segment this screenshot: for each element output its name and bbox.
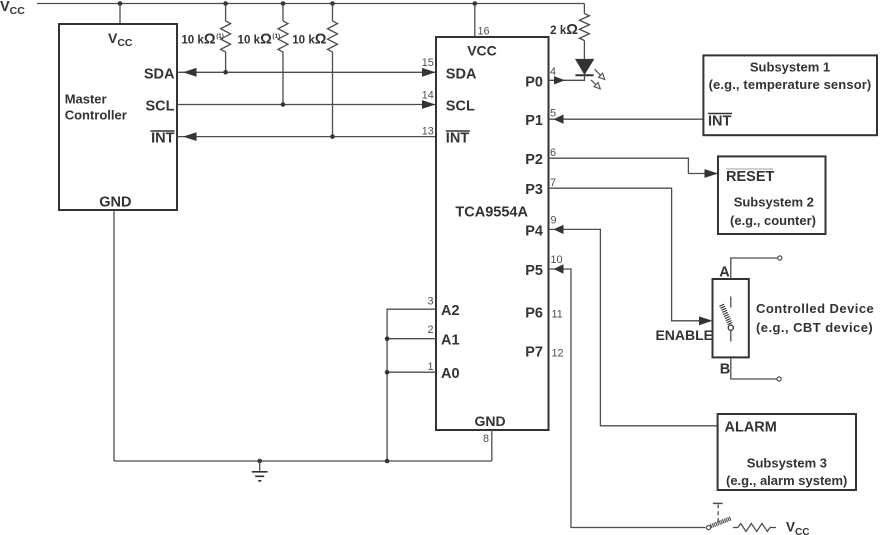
wire SDA master-TCA9554A <box>177 71 436 73</box>
Master Controller caption <box>65 91 127 122</box>
wire rail to 2k resistor <box>583 4 585 14</box>
arrowhead P4 into TCA9554A <box>554 225 564 234</box>
resistor R1 10k (SDA pull-up) <box>221 21 231 52</box>
wire master GND down <box>113 210 115 461</box>
svg-text:Subsystem 3: Subsystem 3 <box>747 455 827 470</box>
wire TCA9554A GND pin 8 <box>491 430 493 461</box>
svg-text:(e.g., alarm system): (e.g., alarm system) <box>726 473 847 488</box>
label 10 kOhm for R3 <box>292 31 327 47</box>
terminal circle B <box>777 377 781 381</box>
svg-text:GND: GND <box>474 413 505 429</box>
svg-text:VCC: VCC <box>786 519 809 535</box>
svg-text:16: 16 <box>478 26 490 38</box>
wire rail to pin 16 <box>474 4 476 38</box>
arrowhead INT at master <box>183 132 197 141</box>
svg-text:6: 6 <box>550 147 556 159</box>
svg-text:SDA: SDA <box>144 66 175 82</box>
svg-text:GND: GND <box>99 195 131 211</box>
svg-text:(e.g., counter): (e.g., counter) <box>730 213 816 228</box>
svg-text:8: 8 <box>483 433 489 445</box>
terminal circle A <box>778 256 782 260</box>
arrowhead SDA at master <box>183 68 197 77</box>
switch pivot circle <box>728 325 733 330</box>
wire P5 to push button <box>549 269 706 528</box>
Master Controller INT label (overline) <box>151 131 175 147</box>
svg-text:9: 9 <box>551 215 557 227</box>
label 2 kOhm <box>550 22 578 38</box>
junction A1 <box>385 336 390 341</box>
svg-text:A2: A2 <box>441 303 460 319</box>
svg-text:P4: P4 <box>525 224 543 240</box>
svg-text:4: 4 <box>550 66 556 78</box>
svg-text:1: 1 <box>427 361 433 373</box>
junction A0 <box>385 370 390 375</box>
label 10 kOhm (1) for R1 <box>181 31 224 47</box>
switch fixed contact top <box>730 297 732 308</box>
label 10 kOhm (1) for R2 <box>238 31 281 47</box>
svg-text:A1: A1 <box>441 333 460 349</box>
wire INT master-TCA9554A <box>177 136 436 138</box>
svg-text:2 kΩ: 2 kΩ <box>550 22 578 38</box>
resistor R3 10k (INT pull-up) <box>328 21 338 52</box>
wire A1 to address bus <box>387 338 436 340</box>
svg-text:12: 12 <box>552 348 564 360</box>
junction SDA/R1 <box>223 70 228 75</box>
wire A0 to address bus <box>387 371 436 373</box>
push button contact circle <box>706 526 710 530</box>
svg-text:14: 14 <box>422 90 434 102</box>
svg-text:SCL: SCL <box>446 99 475 115</box>
svg-text:A: A <box>719 264 730 280</box>
svg-text:10 kΩ: 10 kΩ <box>181 31 216 47</box>
svg-text:TCA9554A: TCA9554A <box>455 205 528 221</box>
node VCC (top-left label) <box>0 0 25 17</box>
arrowhead into ENABLE <box>699 316 713 325</box>
junction on rail at R2 <box>281 1 286 6</box>
wire terminal B <box>731 357 777 379</box>
junction on rail above Master Controller <box>118 1 123 6</box>
junction INT/R3 <box>330 134 335 139</box>
svg-text:P6: P6 <box>525 306 543 322</box>
svg-text:ENABLE: ENABLE <box>655 327 713 343</box>
svg-text:VCC: VCC <box>0 0 25 17</box>
wire resistor to VCC <box>770 527 776 529</box>
LED D1 <box>575 59 605 89</box>
resistor 2k <box>579 14 589 41</box>
svg-text:P2: P2 <box>525 152 543 168</box>
svg-text:(1): (1) <box>216 33 224 40</box>
wire P2 to RESET <box>549 158 719 173</box>
wire P1 from Subsystem 1 <box>549 118 704 120</box>
switch bottom stub <box>730 331 732 342</box>
junction at ground symbol <box>257 459 262 464</box>
TCA9554A INT label (overline) <box>446 131 470 147</box>
svg-text:VCC: VCC <box>467 42 497 58</box>
svg-text:5: 5 <box>550 108 556 120</box>
Master Controller VCC label <box>108 30 133 49</box>
svg-text:P3: P3 <box>525 182 543 198</box>
svg-text:Controlled Device: Controlled Device <box>756 301 874 316</box>
svg-text:11: 11 <box>552 309 563 321</box>
junction address bus/ground <box>385 459 390 464</box>
svg-text:(e.g., CBT device): (e.g., CBT device) <box>756 320 873 335</box>
push button lever (hatched) <box>710 517 731 529</box>
Master Controller box <box>59 24 177 210</box>
svg-text:7: 7 <box>550 177 556 189</box>
svg-text:Subsystem 1: Subsystem 1 <box>750 60 830 75</box>
svg-text:P0: P0 <box>525 74 543 90</box>
svg-text:3: 3 <box>427 295 433 307</box>
wire R3 leads <box>332 4 334 137</box>
arrowhead into RESET <box>705 169 719 178</box>
Controlled Device caption <box>756 301 874 335</box>
wire P0 to LED cathode <box>549 75 585 80</box>
wire terminal A <box>731 258 778 279</box>
Subsystem 2 box <box>718 156 826 234</box>
svg-text:P7: P7 <box>525 345 543 361</box>
wire ground bus bottom <box>114 460 492 462</box>
svg-text:SDA: SDA <box>446 66 477 82</box>
svg-text:Master: Master <box>65 91 107 106</box>
Controlled Device box <box>713 279 749 357</box>
Subsystem 1 INT label (overline) <box>708 113 732 129</box>
svg-text:2: 2 <box>427 324 433 336</box>
svg-text:VCC: VCC <box>108 30 133 49</box>
wire rail to Master Controller VCC <box>119 4 121 25</box>
Subsystem 2 RESET label (grey overline) <box>726 169 774 185</box>
junction on rail above pin 16 <box>473 1 478 6</box>
svg-text:10: 10 <box>551 254 563 266</box>
ground symbol <box>252 461 268 481</box>
junction on rail at R3 <box>330 1 335 6</box>
wire A2 to address bus <box>387 309 436 461</box>
junction on rail at R1 <box>223 1 228 6</box>
resistor R2 10k (SCL pull-up) <box>278 21 288 52</box>
arrowhead P5 into TCA9554A <box>554 264 564 273</box>
svg-text:INT: INT <box>151 131 175 147</box>
arrowhead SCL at TCA9554A <box>422 100 436 109</box>
push button actuator <box>713 503 723 522</box>
svg-text:INT: INT <box>708 113 732 129</box>
svg-text:10 kΩ: 10 kΩ <box>238 31 273 47</box>
svg-text:B: B <box>720 361 730 377</box>
svg-text:10 kΩ: 10 kΩ <box>292 31 327 47</box>
svg-text:13: 13 <box>422 126 434 138</box>
Subsystem 3 box <box>718 414 856 490</box>
svg-text:15: 15 <box>422 57 434 69</box>
svg-text:ALARM: ALARM <box>725 420 777 436</box>
IC U1 TCA9554A box <box>436 37 549 430</box>
resistor at push button <box>738 524 770 532</box>
wire 2k to LED anode <box>583 41 585 59</box>
wire R2 leads <box>282 4 284 105</box>
wire P4 from ALARM <box>549 229 718 425</box>
node VCC (bottom-right) <box>786 519 809 535</box>
svg-text:Subsystem 2: Subsystem 2 <box>734 194 814 209</box>
wire R1 leads <box>225 4 227 73</box>
arrowhead P1 into TCA9554A <box>554 115 564 124</box>
arrowhead SDA at TCA9554A <box>422 68 436 77</box>
wire P3 to ENABLE <box>549 188 700 321</box>
switch lever (hatched) <box>719 304 732 325</box>
svg-text:(1): (1) <box>272 33 280 40</box>
svg-text:P5: P5 <box>525 263 543 279</box>
svg-text:INT: INT <box>446 131 470 147</box>
svg-text:(e.g., temperature sensor): (e.g., temperature sensor) <box>709 77 872 92</box>
wire SCL master-TCA9554A <box>177 104 436 106</box>
svg-text:SCL: SCL <box>146 99 175 115</box>
svg-text:RESET: RESET <box>726 169 774 185</box>
svg-text:A0: A0 <box>441 366 460 382</box>
Subsystem 1 box <box>703 55 877 135</box>
wire button to resistor <box>733 527 738 529</box>
arrowhead P0 output <box>554 76 565 84</box>
wire VCC rail <box>37 3 584 5</box>
svg-text:P1: P1 <box>525 113 543 129</box>
svg-text:Controller: Controller <box>65 108 127 123</box>
junction SCL/R2 <box>281 102 286 107</box>
